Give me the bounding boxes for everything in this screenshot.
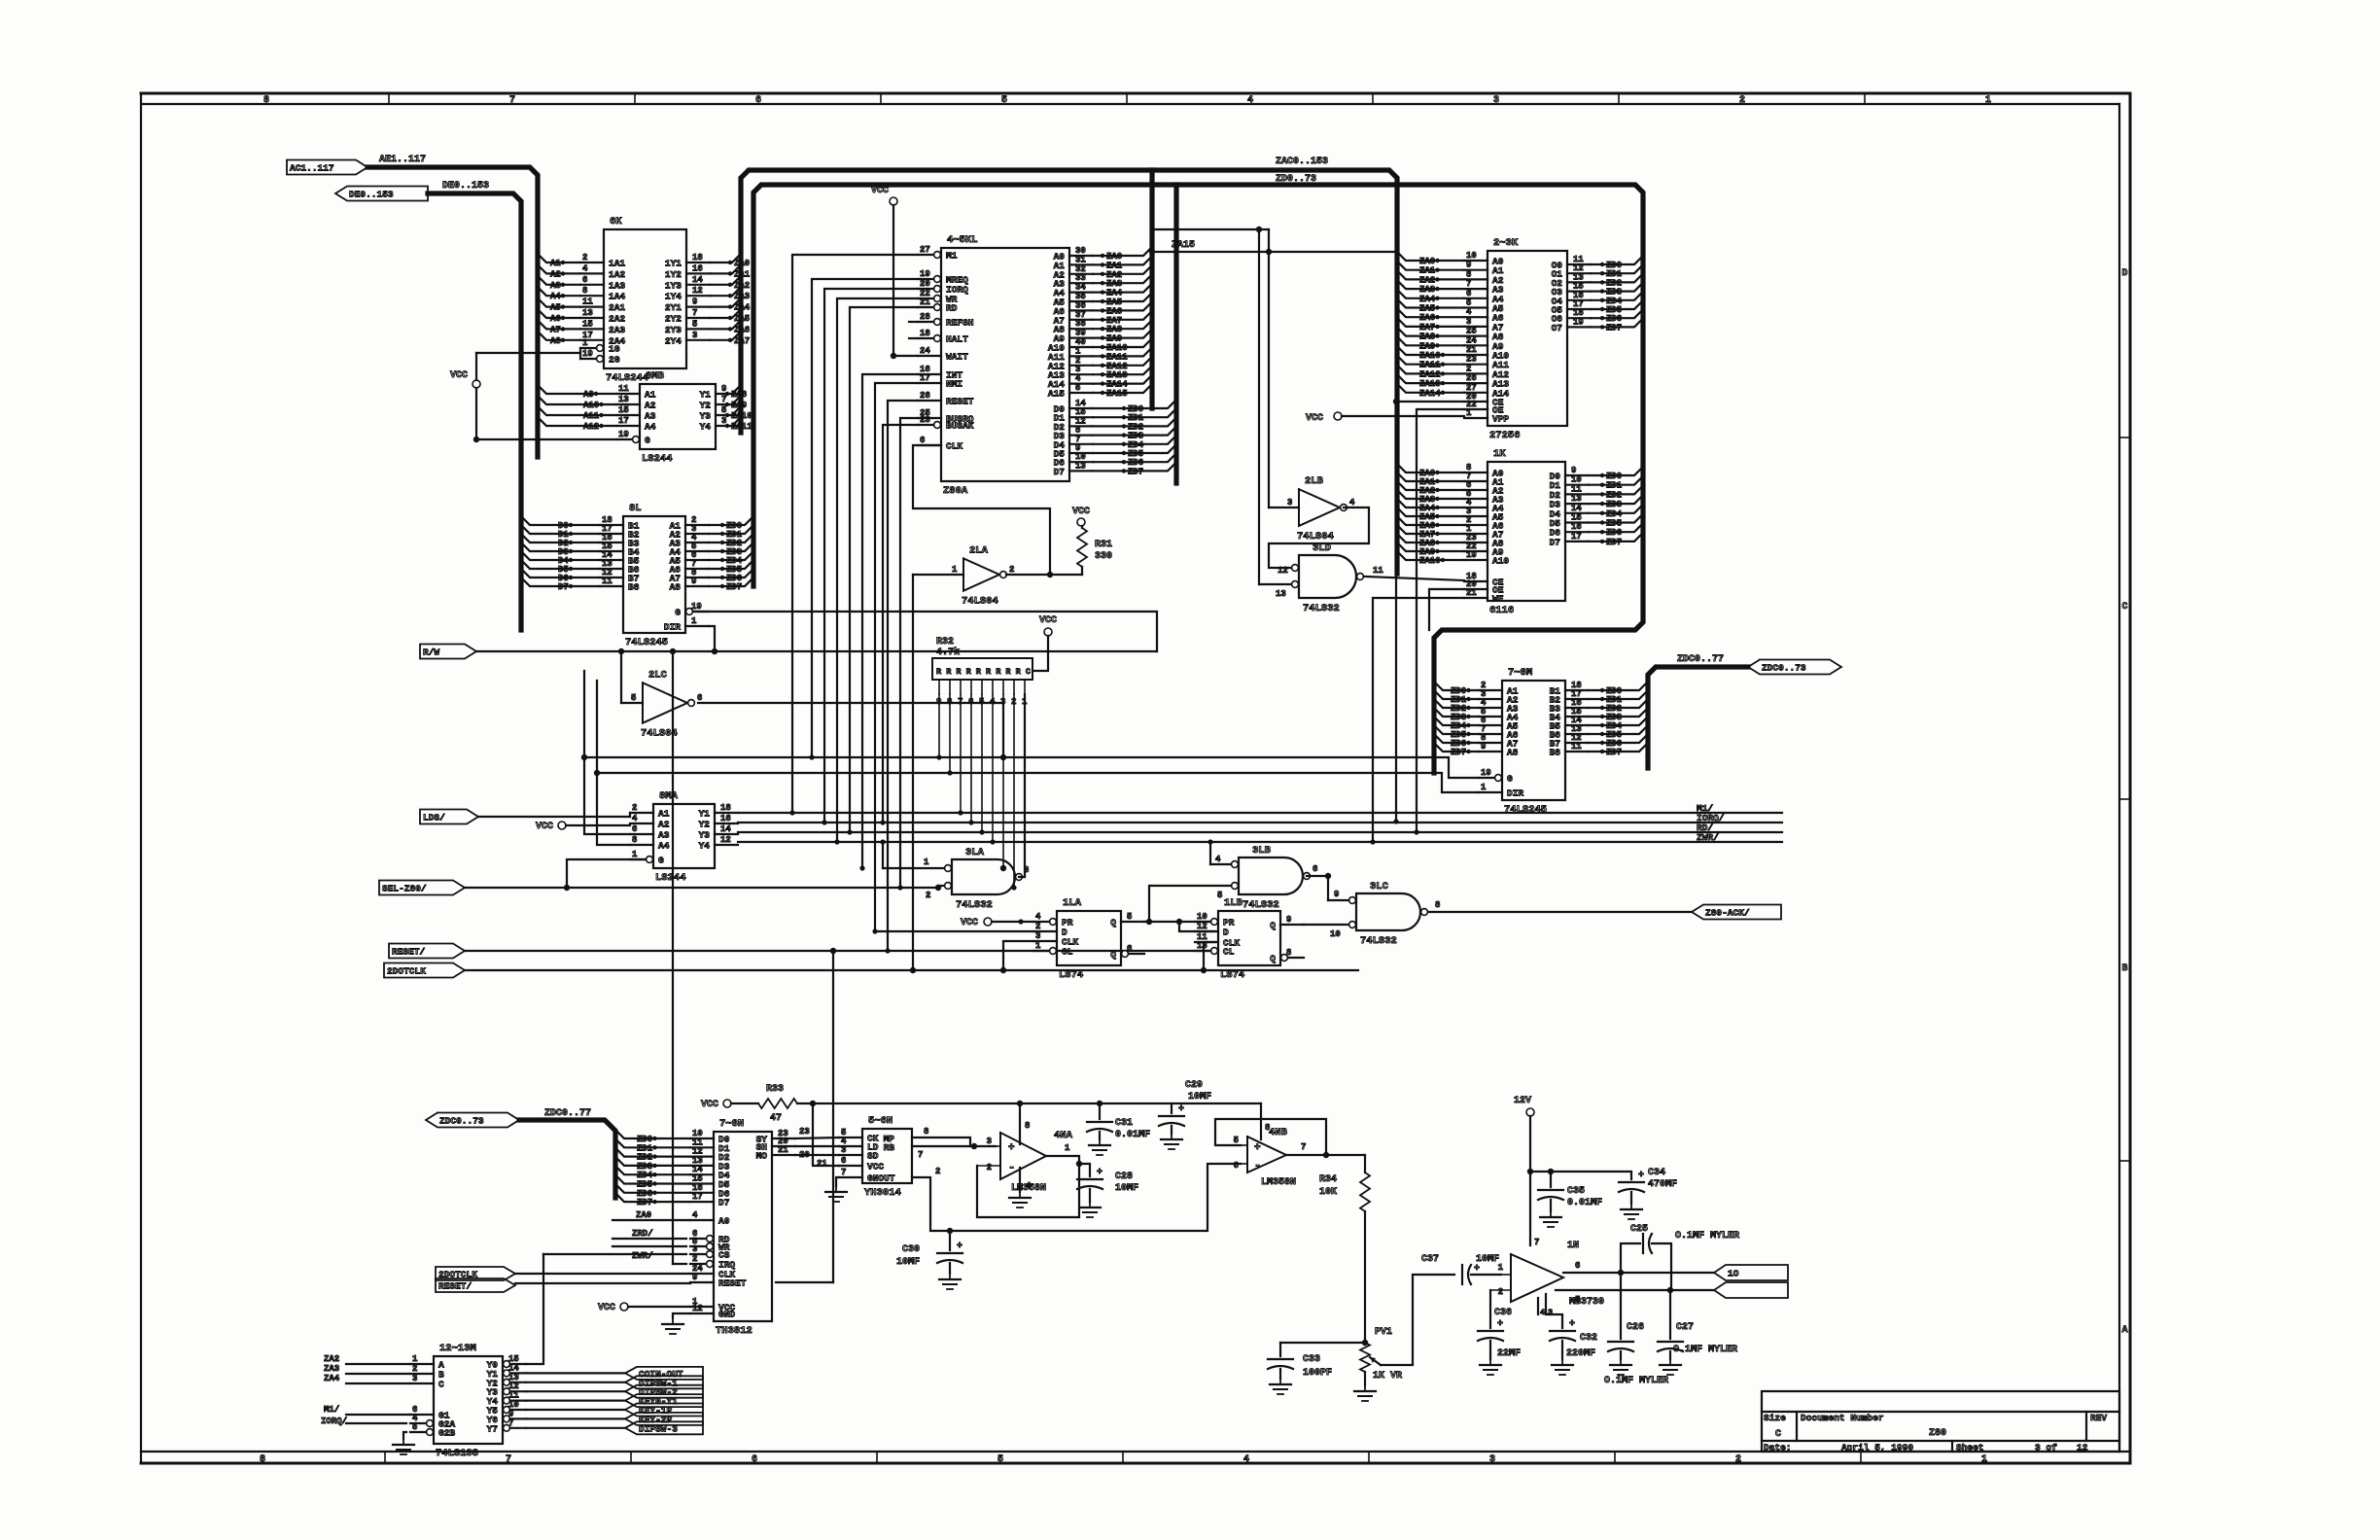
wire fan 8L inputs D0..D7	[521, 516, 600, 592]
svg-text:2LA: 2LA	[969, 544, 989, 556]
svg-text:1: 1	[1985, 95, 1991, 106]
wire YM3812 RD WR inputs	[612, 1229, 686, 1261]
svg-text:16: 16	[720, 814, 731, 823]
wire 1LB CLK from 2DOTCLK	[1201, 942, 1214, 973]
svg-text:ZDC0..73: ZDC0..73	[439, 1116, 484, 1127]
svg-text:7: 7	[692, 308, 697, 318]
svg-text:12: 12	[1197, 922, 1207, 931]
svg-text:O.1MF MYLER: O.1MF MYLER	[1675, 1231, 1739, 1242]
svg-text:18: 18	[920, 329, 930, 338]
wire fan RAM address inputs	[1397, 464, 1464, 566]
output connectors keypad nets	[526, 1367, 703, 1434]
svg-text:5: 5	[1217, 891, 1222, 900]
svg-text:Y1: Y1	[700, 390, 712, 401]
svg-text:5: 5	[997, 1454, 1003, 1465]
svg-text:8: 8	[1286, 948, 1291, 958]
svg-text:5: 5	[1234, 1136, 1239, 1145]
inverter 2LC 74LS04	[618, 648, 703, 740]
svg-text:+: +	[1638, 1171, 1644, 1181]
svg-text:ZA4: ZA4	[734, 303, 751, 313]
svg-text:B: B	[2121, 963, 2127, 974]
svg-text:100PF: 100PF	[1303, 1368, 1332, 1379]
resistor R31 330	[1072, 507, 1112, 575]
svg-text:C: C	[438, 1380, 444, 1390]
svg-text:23: 23	[920, 415, 930, 425]
svg-text:12: 12	[692, 1304, 703, 1313]
svg-text:15: 15	[582, 319, 593, 329]
svg-text:3: 3	[1489, 1454, 1495, 1465]
svg-text:LS244: LS244	[642, 453, 673, 465]
svg-text:WAIT: WAIT	[946, 352, 968, 363]
svg-text:3 of: 3 of	[2035, 1443, 2057, 1453]
wire ZA15 run	[1149, 240, 1399, 824]
svg-text:4: 4	[1215, 855, 1221, 864]
svg-text:2Y4: 2Y4	[665, 335, 682, 346]
svg-text:G: G	[1507, 774, 1513, 785]
svg-text:4: 4	[632, 814, 638, 823]
svg-text:8: 8	[1466, 269, 1471, 279]
svg-text:19: 19	[920, 269, 930, 279]
svg-text:21: 21	[817, 1159, 827, 1169]
svg-text:-: -	[1254, 1159, 1261, 1172]
svg-text:1A4: 1A4	[609, 292, 625, 302]
buffer U-8MB LS244	[616, 370, 739, 465]
wire Z80 control bundle	[789, 255, 918, 954]
svg-text:+: +	[1474, 1264, 1480, 1275]
svg-text:470MF: 470MF	[1648, 1179, 1677, 1190]
bus ZA top horizontal	[741, 157, 1397, 574]
wire fan 7~8M inputs	[1434, 682, 1479, 757]
svg-text:7: 7	[1301, 1142, 1306, 1152]
svg-text:74LS244: 74LS244	[606, 372, 648, 384]
svg-text:20: 20	[920, 279, 930, 289]
svg-text:4: 4	[1349, 498, 1355, 507]
svg-text:9: 9	[1334, 890, 1339, 899]
svg-text:Q: Q	[1110, 918, 1116, 928]
svg-text:Q: Q	[1270, 921, 1276, 931]
svg-text:7: 7	[506, 1454, 511, 1465]
svg-text:ZA2: ZA2	[324, 1354, 339, 1364]
svg-text:1: 1	[691, 616, 697, 626]
svg-text:74LS245: 74LS245	[1504, 804, 1547, 816]
svg-text:3LC: 3LC	[1370, 881, 1389, 892]
svg-text:AE1..117: AE1..117	[379, 155, 426, 165]
svg-text:1LA: 1LA	[1063, 897, 1082, 909]
bus ZA collector from Z80	[1149, 170, 1154, 408]
svg-text:16: 16	[692, 263, 703, 273]
svg-text:A8: A8	[550, 336, 561, 346]
svg-text:21: 21	[920, 297, 930, 307]
svg-text:5: 5	[631, 693, 636, 703]
ground YM3014	[825, 1177, 847, 1202]
svg-text:18: 18	[692, 253, 703, 262]
svg-text:1: 1	[1035, 941, 1041, 951]
svg-text:2: 2	[935, 1167, 940, 1176]
power VCC for R32	[1032, 615, 1057, 671]
svg-text:8: 8	[632, 835, 637, 845]
wire bus AE to vertical	[367, 167, 538, 457]
svg-text:C29: C29	[1185, 1080, 1203, 1091]
svg-text:3: 3	[987, 1137, 992, 1146]
svg-text:1G: 1G	[609, 344, 620, 355]
svg-text:DIR: DIR	[664, 622, 681, 633]
transceiver U-8L 74LS245	[600, 503, 709, 648]
op-amp 4NA LM358N	[977, 1101, 1073, 1207]
svg-text:R R R R R R R R R C: R R R R R R R R R C	[936, 667, 1031, 677]
svg-text:ZAC0..153: ZAC0..153	[1276, 157, 1328, 167]
svg-text:1O: 1O	[1728, 1269, 1739, 1279]
svg-text:B8: B8	[1550, 748, 1561, 758]
border column numbers top	[263, 93, 1991, 106]
svg-text:A1: A1	[658, 809, 670, 820]
svg-text:5: 5	[1127, 912, 1132, 922]
svg-text:13: 13	[1571, 494, 1582, 504]
wire Y0 to CS	[526, 1254, 543, 1364]
svg-text:2G: 2G	[609, 355, 620, 366]
svg-text:24: 24	[920, 346, 930, 356]
svg-text:14: 14	[1571, 504, 1582, 513]
wire bus DE to vertical	[428, 193, 521, 630]
svg-text:2A2: 2A2	[609, 314, 625, 325]
svg-text:2~3K: 2~3K	[1493, 237, 1519, 249]
svg-text:DE0..153: DE0..153	[442, 181, 489, 192]
svg-text:DE0..153: DE0..153	[349, 190, 394, 200]
svg-text:C33: C33	[1303, 1354, 1320, 1365]
bus connector AE1..117	[287, 155, 426, 175]
svg-text:47: 47	[770, 1113, 782, 1124]
svg-text:1: 1	[1466, 408, 1472, 418]
svg-text:12: 12	[2077, 1443, 2088, 1453]
wire fan Z80 address outputs	[1093, 247, 1152, 399]
svg-text:ZDC0..77: ZDC0..77	[1677, 654, 1724, 665]
svg-text:ZA6: ZA6	[1419, 313, 1435, 323]
capacitor C28 10MF	[1077, 1164, 1138, 1217]
svg-text:6: 6	[1575, 1261, 1580, 1271]
svg-text:5~6N: 5~6N	[868, 1115, 892, 1127]
output connector speaker 2	[1714, 1282, 1788, 1298]
svg-text:6: 6	[582, 275, 587, 285]
output connector speaker 1	[1714, 1265, 1788, 1280]
svg-text:19: 19	[691, 602, 702, 612]
bus ZD out to ZDC0..77 arrow	[1648, 654, 1748, 768]
svg-text:3: 3	[692, 1244, 697, 1254]
svg-text:C30: C30	[902, 1244, 920, 1255]
svg-text:ZD4: ZD4	[1606, 509, 1623, 519]
svg-text:1: 1	[632, 850, 638, 859]
svg-text:ZA2: ZA2	[1419, 275, 1435, 285]
svg-text:R31: R31	[1095, 540, 1112, 550]
svg-text:17: 17	[692, 1192, 703, 1202]
svg-text:C37: C37	[1421, 1254, 1439, 1265]
svg-text:7~8M: 7~8M	[1508, 667, 1532, 679]
wire 4NA output and feedback	[977, 1143, 1082, 1217]
svg-text:4: 4	[1247, 95, 1253, 106]
svg-text:ZA11: ZA11	[731, 422, 752, 432]
svg-text:Y3: Y3	[699, 830, 711, 841]
RAM 6116 1K	[1464, 448, 1589, 616]
wire 2LC output run	[698, 703, 1003, 757]
svg-text:25: 25	[1466, 327, 1477, 336]
svg-text:BUSAK: BUSAK	[946, 421, 974, 432]
svg-text:R33: R33	[766, 1084, 784, 1095]
svg-text:ZDC0..73: ZDC0..73	[1762, 663, 1806, 674]
svg-text:M1/: M1/	[324, 1405, 339, 1415]
svg-text:DIR: DIR	[1507, 788, 1523, 799]
svg-text:+: +	[1178, 1104, 1184, 1115]
wire 4NB output	[1286, 1142, 1365, 1155]
svg-text:M1: M1	[946, 251, 958, 262]
svg-text:6: 6	[1234, 1161, 1239, 1171]
power VCC to 1LA PR	[961, 918, 1033, 928]
wire 1LA D input	[875, 930, 1033, 932]
svg-text:6: 6	[1127, 944, 1132, 954]
svg-text:ZA15: ZA15	[1106, 389, 1128, 399]
svg-text:NMI: NMI	[946, 379, 962, 390]
svg-text:ZA7: ZA7	[734, 336, 750, 346]
svg-text:ZA9: ZA9	[1419, 341, 1435, 351]
svg-text:O7: O7	[1552, 323, 1563, 333]
svg-text:A4: A4	[645, 422, 656, 433]
svg-text:LM358N: LM358N	[1261, 1177, 1296, 1188]
svg-text:Y2: Y2	[699, 820, 711, 830]
svg-text:1Y3: 1Y3	[665, 280, 682, 291]
svg-text:ZA5: ZA5	[1419, 304, 1435, 314]
svg-text:+: +	[1097, 1168, 1102, 1178]
svg-text:8MB: 8MB	[646, 370, 665, 382]
svg-text:A10: A10	[583, 401, 599, 410]
svg-text:3: 3	[412, 1374, 417, 1383]
wire fan 7~8M outputs	[1589, 682, 1648, 757]
svg-text:A6: A6	[550, 314, 561, 324]
svg-text:5: 5	[692, 319, 697, 329]
svg-text:74LS04: 74LS04	[1297, 531, 1334, 542]
svg-text:2: 2	[1466, 364, 1471, 373]
svg-text:4: 4	[1243, 1454, 1249, 1465]
buffer U-6K 74LS244	[580, 216, 710, 384]
svg-text:A1: A1	[550, 259, 561, 268]
svg-text:7~8N: 7~8N	[719, 1118, 744, 1130]
svg-text:Y2: Y2	[700, 401, 712, 411]
svg-text:6: 6	[752, 1454, 757, 1465]
svg-text:8L: 8L	[629, 503, 642, 514]
svg-text:22MF: 22MF	[1497, 1348, 1521, 1359]
svg-text:A12: A12	[583, 422, 599, 432]
svg-text:C25: C25	[1630, 1224, 1648, 1235]
wire 4NB input loop	[1215, 1119, 1329, 1158]
svg-text:CL: CL	[1223, 947, 1235, 958]
svg-text:R34: R34	[1319, 1174, 1337, 1185]
svg-text:CL: CL	[1062, 947, 1073, 958]
svg-text:74LS04: 74LS04	[962, 596, 998, 608]
svg-text:D7: D7	[558, 582, 569, 592]
svg-text:Z80A: Z80A	[943, 485, 968, 497]
svg-text:2: 2	[1009, 565, 1014, 575]
svg-text:11: 11	[1571, 484, 1582, 494]
svg-text:ZA4: ZA4	[1419, 295, 1436, 304]
svg-text:1: 1	[1498, 1263, 1504, 1273]
svg-text:C36: C36	[1494, 1308, 1512, 1318]
svg-text:A2: A2	[658, 820, 670, 830]
svg-text:0.01MF: 0.01MF	[1567, 1198, 1602, 1208]
svg-text:D7: D7	[1054, 467, 1066, 477]
svg-text:11: 11	[618, 384, 629, 394]
input connector 2DOTCLK	[384, 963, 1358, 978]
svg-text:8: 8	[263, 95, 269, 106]
svg-text:CLK: CLK	[946, 441, 962, 452]
svg-text:3LA: 3LA	[965, 847, 985, 858]
svg-text:GND: GND	[718, 1310, 735, 1320]
svg-text:ZD5: ZD5	[1606, 519, 1622, 529]
wire A15 branch	[1152, 228, 1269, 230]
svg-text:VCC: VCC	[1072, 507, 1090, 517]
svg-text:AC1..117: AC1..117	[290, 163, 334, 174]
wire IRQ vertical	[670, 648, 676, 1264]
svg-text:11: 11	[1373, 566, 1383, 576]
svg-text:1: 1	[924, 857, 929, 867]
svg-text:7: 7	[1534, 1238, 1539, 1247]
capacitor C33 100PF	[1268, 1343, 1365, 1394]
svg-text:28: 28	[920, 312, 930, 322]
svg-text:7: 7	[841, 1168, 846, 1177]
svg-text:ZA0: ZA0	[734, 259, 750, 268]
svg-text:D7: D7	[718, 1198, 730, 1208]
svg-text:SEL-Z80/: SEL-Z80/	[382, 884, 427, 894]
svg-text:A3: A3	[550, 281, 561, 291]
svg-text:ZA3: ZA3	[324, 1364, 339, 1374]
svg-text:6: 6	[920, 436, 925, 445]
bus connector ZDC0..77 bottom left	[426, 1108, 591, 1128]
svg-text:ZDC0..77: ZDC0..77	[544, 1108, 591, 1119]
capacitor C29 10MF	[1159, 1080, 1211, 1149]
svg-text:21: 21	[778, 1145, 788, 1155]
svg-text:14: 14	[692, 275, 703, 285]
wire 1LA CLK from 2DOTCLK	[1000, 941, 1033, 973]
svg-text:ZD7: ZD7	[1128, 467, 1143, 476]
svg-text:9: 9	[692, 297, 697, 307]
input connector LDS/	[420, 810, 630, 824]
svg-text:ZA2: ZA2	[734, 281, 750, 291]
wire YM3014 outputs to op-amp	[912, 1127, 996, 1160]
ground YM3812	[662, 1313, 690, 1334]
svg-text:16: 16	[1571, 522, 1582, 532]
svg-text:Y1: Y1	[699, 809, 711, 820]
wire fan 8L outputs ZD0..ZD7	[709, 516, 753, 592]
svg-text:ZD7: ZD7	[1606, 323, 1622, 332]
svg-text:ZA10: ZA10	[1419, 351, 1441, 361]
svg-text:RD: RD	[946, 303, 958, 314]
svg-text:4NB: 4NB	[1269, 1127, 1288, 1138]
svg-text:1A2: 1A2	[609, 269, 625, 280]
svg-text:1: 1	[1981, 1454, 1987, 1465]
power VCC near 6K	[450, 353, 480, 439]
CPU Z80A	[918, 234, 1093, 497]
svg-text:2A3: 2A3	[609, 325, 625, 335]
power VCC to ROM VPP	[1306, 412, 1464, 424]
svg-text:6: 6	[755, 95, 761, 106]
svg-text:10K: 10K	[1319, 1187, 1337, 1198]
svg-text:RESET/: RESET/	[438, 1281, 472, 1292]
svg-text:A4: A4	[658, 841, 670, 852]
svg-text:9: 9	[1481, 742, 1486, 752]
svg-text:4: 4	[1466, 307, 1472, 317]
svg-text:TH3812: TH3812	[716, 1325, 752, 1337]
svg-text:ZA5: ZA5	[734, 314, 750, 324]
svg-text:ZD0: ZD0	[1606, 472, 1622, 481]
svg-text:DIPSW-3: DIPSW-3	[639, 1423, 678, 1434]
svg-text:10MF: 10MF	[1188, 1092, 1211, 1102]
wire R32 pin drops	[936, 694, 1016, 891]
svg-text:RESET: RESET	[718, 1278, 747, 1289]
wire 2LB out to 3LD	[1269, 507, 1369, 568]
svg-text:VCC: VCC	[1039, 615, 1057, 626]
svg-text:13: 13	[1075, 461, 1086, 471]
svg-text:21: 21	[1466, 588, 1477, 598]
svg-text:4: 4	[582, 263, 588, 273]
svg-text:IORQ/: IORQ/	[321, 1417, 347, 1426]
svg-text:A10: A10	[1492, 556, 1509, 567]
svg-text:1: 1	[1481, 783, 1487, 792]
svg-text:3: 3	[1287, 498, 1292, 507]
svg-text:10MF: 10MF	[896, 1257, 920, 1268]
svg-text:6: 6	[1466, 289, 1471, 298]
svg-text:ZD0..73: ZD0..73	[1276, 174, 1316, 185]
wire YM3812 CS from decode	[543, 1253, 686, 1255]
svg-text:10: 10	[1571, 475, 1582, 485]
svg-text:10: 10	[1466, 251, 1477, 261]
svg-text:13: 13	[1276, 589, 1286, 599]
wire control lines M1 IORQ RD ZWR	[738, 803, 1782, 843]
svg-text:ZA0: ZA0	[1419, 257, 1435, 266]
svg-text:HALT: HALT	[946, 334, 968, 345]
wire 8MA A3 A4 feeds	[584, 671, 630, 845]
svg-text:+: +	[1008, 1142, 1015, 1154]
svg-text:ZD1: ZD1	[1606, 481, 1623, 491]
svg-text:4.7k: 4.7k	[936, 647, 960, 658]
svg-text:6: 6	[1312, 864, 1317, 874]
svg-text:1: 1	[412, 1354, 418, 1364]
border row letters	[2119, 268, 2130, 1336]
svg-text:1K: 1K	[1493, 448, 1506, 460]
svg-text:VCC: VCC	[871, 186, 889, 196]
svg-text:A0: A0	[718, 1216, 730, 1227]
svg-text:-: -	[1008, 1161, 1015, 1174]
svg-text:Q: Q	[1270, 954, 1276, 964]
svg-text:Size: Size	[1764, 1413, 1786, 1423]
svg-text:D: D	[1223, 927, 1229, 938]
svg-text:6: 6	[841, 1156, 846, 1166]
svg-text:ZA15: ZA15	[1172, 240, 1195, 251]
svg-text:ZD2: ZD2	[1606, 490, 1622, 500]
svg-text:10: 10	[1197, 912, 1207, 922]
svg-text:8: 8	[582, 286, 587, 296]
svg-text:+: +	[1497, 1319, 1503, 1330]
wire fan 6K outputs ZA0..ZA7	[710, 254, 751, 346]
svg-text:G2B: G2B	[438, 1428, 455, 1439]
bus ZD collector from Z80	[1173, 185, 1178, 483]
flip-flop 1LA LS74	[1033, 897, 1144, 981]
buffer U-8MA LS244	[630, 790, 738, 884]
svg-text:Z80-ACK/: Z80-ACK/	[1705, 908, 1750, 919]
flip-flop 1LB LS74	[1195, 897, 1304, 981]
svg-text:24: 24	[1466, 335, 1477, 345]
svg-text:REV: REV	[2090, 1413, 2107, 1423]
sheet border frame	[141, 93, 2130, 1463]
svg-text:4NA: 4NA	[1054, 1130, 1073, 1141]
svg-text:17: 17	[920, 373, 930, 383]
svg-text:A: A	[2121, 1325, 2127, 1336]
svg-text:C: C	[2121, 602, 2127, 612]
svg-text:RESET/: RESET/	[392, 947, 426, 958]
